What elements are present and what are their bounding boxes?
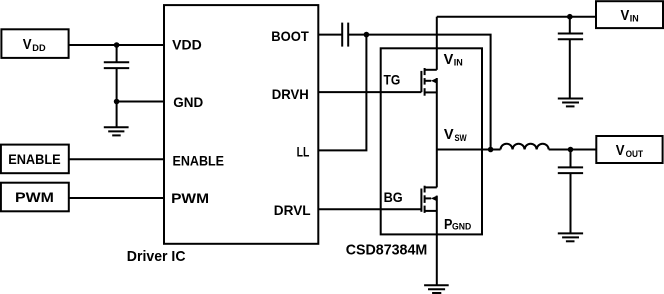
svg-text:DD: DD bbox=[32, 43, 46, 53]
wire PWM box to driver bbox=[69, 197, 164, 199]
svg-text:DRVL: DRVL bbox=[274, 202, 311, 218]
wire GND junction to ground bbox=[116, 102, 118, 128]
svg-text:IN: IN bbox=[630, 14, 639, 24]
ground C-IN bbox=[558, 99, 583, 107]
svg-text:V: V bbox=[444, 126, 454, 143]
transistor Q2 low-side FET bbox=[421, 186, 437, 213]
node dot VDD cap top bbox=[114, 42, 120, 48]
svg-text:PWM: PWM bbox=[15, 189, 54, 205]
svg-text:V: V bbox=[621, 7, 630, 24]
wire Q2 drain up to VSW bbox=[436, 150, 438, 188]
svg-text:TG: TG bbox=[384, 72, 401, 88]
svg-text:IN: IN bbox=[454, 57, 463, 67]
node dot VOUT bbox=[568, 147, 574, 153]
capacitor C-BOOT bbox=[342, 23, 348, 47]
node dot GND cap bottom bbox=[114, 99, 120, 105]
svg-text:V: V bbox=[23, 36, 32, 53]
input box VDD bbox=[1, 29, 68, 58]
capacitor C-IN bbox=[558, 17, 583, 99]
wire boot cap to LL node bbox=[348, 34, 366, 36]
capacitor C-OUT bbox=[558, 150, 583, 234]
wire VIN rail top bbox=[437, 16, 596, 18]
svg-text:V: V bbox=[444, 51, 454, 68]
svg-text:BG: BG bbox=[384, 189, 403, 205]
svg-text:Driver IC: Driver IC bbox=[127, 248, 186, 265]
wire inductor to VOUT box bbox=[549, 149, 597, 151]
svg-text:CSD87384M: CSD87384M bbox=[346, 242, 428, 259]
wire boot node across top to switch drop bbox=[366, 35, 490, 150]
ground C-OUT bbox=[558, 233, 583, 241]
inductor L1 bbox=[501, 144, 549, 150]
node dot VIN rail bbox=[567, 14, 573, 20]
ground VDD cap bbox=[104, 127, 129, 135]
driver IC box bbox=[164, 5, 318, 244]
output box VOUT bbox=[596, 136, 662, 163]
wire DRVH pin to TG gate bbox=[318, 91, 421, 93]
node dot boot bbox=[364, 32, 370, 38]
wire DRVL pin to BG gate bbox=[318, 208, 421, 210]
output box VIN bbox=[596, 1, 663, 28]
ground PGND bbox=[424, 285, 449, 293]
svg-text:BOOT: BOOT bbox=[271, 28, 309, 44]
wire VSW to inductor node bbox=[437, 149, 501, 151]
power block CSD87384M box bbox=[381, 48, 482, 234]
wire Q1 drain up to VIN rail bbox=[436, 17, 438, 70]
svg-text:ENABLE: ENABLE bbox=[8, 151, 61, 167]
capacitor C-VDD bbox=[104, 45, 129, 102]
input box ENABLE bbox=[1, 145, 69, 174]
svg-text:SW: SW bbox=[455, 133, 468, 143]
svg-text:DRVH: DRVH bbox=[272, 86, 309, 102]
wire Q1 source down to VSW bbox=[436, 78, 438, 150]
wire GND cap to driver bbox=[117, 101, 164, 103]
svg-text:V: V bbox=[616, 142, 625, 159]
wire Q2 source down to ground bbox=[436, 196, 438, 286]
wire VDD box to driver bbox=[69, 44, 164, 46]
svg-text:PWM: PWM bbox=[171, 190, 209, 206]
node dot VSW bbox=[488, 147, 494, 153]
svg-text:VDD: VDD bbox=[172, 37, 202, 53]
wire ENABLE box to driver bbox=[69, 158, 164, 160]
svg-text:ENABLE: ENABLE bbox=[173, 152, 225, 168]
svg-text:GND: GND bbox=[173, 94, 203, 110]
input box PWM bbox=[1, 183, 69, 212]
svg-text:LL: LL bbox=[297, 143, 310, 159]
wire LL pin up to boot node bbox=[318, 35, 366, 151]
svg-text:GND: GND bbox=[452, 222, 472, 232]
svg-text:OUT: OUT bbox=[626, 149, 644, 159]
transistor Q1 high-side FET bbox=[421, 68, 437, 96]
wire BOOT pin to cap bbox=[318, 34, 342, 36]
